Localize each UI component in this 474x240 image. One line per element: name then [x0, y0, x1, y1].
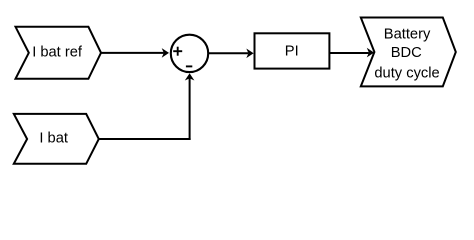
wire: PI block output to output block	[329, 52, 369, 54]
svg-text:duty cycle: duty cycle	[374, 65, 439, 81]
arrowhead: into summing junction plus input	[162, 48, 169, 58]
svg-text:I bat: I bat	[39, 131, 68, 147]
input block "I bat ref" (chevron)	[16, 27, 102, 79]
svg-text:I bat ref: I bat ref	[32, 44, 83, 60]
wire: I bat output, horizontal segment	[99, 138, 191, 140]
minus sign label	[186, 65, 192, 67]
arrowhead: into output block	[367, 48, 374, 58]
svg-text:Battery: Battery	[384, 26, 431, 42]
wire: summing junction output to PI block	[208, 52, 248, 54]
summing junction circle U1	[171, 35, 208, 72]
svg-text:PI: PI	[285, 44, 299, 60]
input block "I bat" (chevron)	[14, 114, 99, 164]
svg-text:BDC: BDC	[391, 45, 422, 61]
PI controller block	[255, 33, 330, 68]
output block "Battery BDC duty cycle" (chevron)	[361, 18, 456, 87]
arrowhead: into summing junction minus input	[185, 73, 195, 80]
wire: vertical segment up to summing junction bottom	[189, 78, 191, 140]
plus sign label	[173, 47, 182, 56]
wire: I bat ref output to summing junction left	[101, 52, 164, 54]
arrowhead: into PI block	[246, 49, 253, 59]
